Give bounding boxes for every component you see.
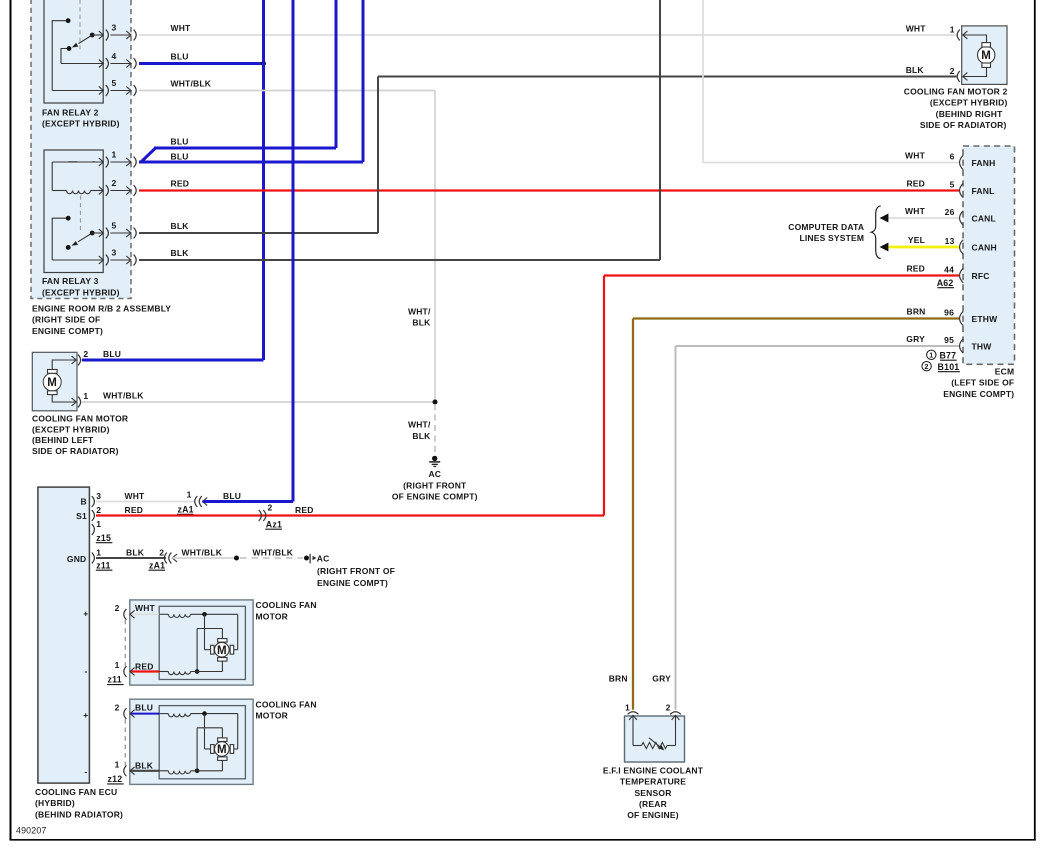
svg-text:(RIGHT FRONT OF: (RIGHT FRONT OF	[317, 566, 395, 576]
svg-text:WHT/: WHT/	[408, 420, 431, 430]
svg-text:13: 13	[945, 236, 955, 246]
svg-text:BLK: BLK	[171, 248, 190, 258]
svg-text:(EXCEPT HYBRID): (EXCEPT HYBRID)	[42, 287, 120, 297]
svg-text:AC: AC	[317, 554, 330, 564]
svg-text:4: 4	[112, 51, 117, 61]
svg-text:(REAR: (REAR	[639, 799, 667, 809]
svg-text:2: 2	[115, 702, 120, 712]
svg-text:Az1: Az1	[266, 519, 282, 529]
svg-text:WHT: WHT	[905, 206, 926, 216]
svg-text:BLK: BLK	[412, 431, 431, 441]
svg-text:BLU: BLU	[171, 137, 189, 147]
svg-text:A62: A62	[937, 278, 954, 288]
svg-text:FANL: FANL	[972, 186, 995, 196]
svg-text:AC: AC	[428, 469, 441, 479]
svg-text:BLU: BLU	[171, 152, 189, 162]
svg-text:26: 26	[945, 207, 955, 217]
svg-text:FANH: FANH	[972, 158, 996, 168]
svg-text:GRY: GRY	[652, 673, 671, 683]
svg-text:(BEHIND RADIATOR): (BEHIND RADIATOR)	[35, 809, 123, 819]
svg-text:(EXCEPT HYBRID): (EXCEPT HYBRID)	[930, 98, 1008, 108]
svg-text:WHT: WHT	[171, 23, 192, 33]
svg-text:COMPUTER DATA: COMPUTER DATA	[788, 222, 864, 232]
svg-text:M: M	[981, 50, 991, 62]
svg-text:COOLING FAN MOTOR 2: COOLING FAN MOTOR 2	[904, 87, 1008, 97]
svg-text:96: 96	[944, 308, 954, 318]
svg-text:CANL: CANL	[972, 213, 996, 223]
svg-text:1: 1	[83, 391, 88, 401]
svg-text:ENGINE COMPT): ENGINE COMPT)	[32, 326, 103, 336]
svg-text:2: 2	[115, 603, 120, 613]
svg-text:2: 2	[96, 505, 101, 515]
svg-text:M: M	[47, 377, 57, 389]
svg-text:z12: z12	[108, 774, 123, 784]
svg-text:(EXCEPT HYBRID): (EXCEPT HYBRID)	[32, 424, 110, 434]
svg-text:2: 2	[925, 364, 929, 371]
svg-text:BLK: BLK	[171, 221, 190, 231]
svg-text:3: 3	[112, 23, 117, 33]
svg-text:MOTOR: MOTOR	[256, 711, 288, 721]
svg-text:ETHW: ETHW	[972, 314, 999, 324]
svg-text:WHT/BLK: WHT/BLK	[103, 390, 144, 400]
svg-text:5: 5	[112, 221, 117, 231]
svg-text:B101: B101	[938, 362, 960, 372]
svg-text:B: B	[81, 497, 87, 507]
svg-text:FAN RELAY 3: FAN RELAY 3	[42, 276, 99, 286]
svg-text:GND: GND	[67, 554, 87, 564]
svg-text:ECM: ECM	[995, 366, 1015, 376]
svg-text:zA1: zA1	[149, 560, 165, 570]
svg-text:YEL: YEL	[908, 235, 925, 245]
svg-text:(BEHIND LEFT: (BEHIND LEFT	[32, 435, 94, 445]
svg-text:BLK: BLK	[135, 761, 154, 771]
svg-text:TEMPERATURE: TEMPERATURE	[620, 777, 686, 787]
svg-text:1: 1	[96, 548, 101, 558]
svg-text:OF ENGINE COMPT): OF ENGINE COMPT)	[392, 492, 478, 502]
svg-text:BLU: BLU	[103, 349, 121, 359]
svg-text:+: +	[83, 609, 88, 619]
svg-text:1: 1	[929, 353, 933, 360]
svg-text:CANH: CANH	[972, 242, 997, 252]
svg-text:COOLING FAN ECU: COOLING FAN ECU	[35, 787, 117, 797]
svg-text:z11: z11	[108, 675, 122, 685]
svg-text:SIDE OF RADIATOR): SIDE OF RADIATOR)	[32, 446, 119, 456]
svg-text:ENGINE COMPT): ENGINE COMPT)	[943, 389, 1014, 399]
svg-text:M: M	[217, 645, 227, 657]
svg-text:WHT: WHT	[125, 491, 146, 501]
svg-text:2: 2	[950, 66, 955, 76]
svg-text:COOLING FAN: COOLING FAN	[256, 700, 317, 710]
svg-text:M: M	[217, 744, 227, 756]
svg-text:RED: RED	[295, 505, 314, 515]
svg-text:490207: 490207	[16, 826, 47, 836]
svg-text:BLK: BLK	[906, 65, 925, 75]
svg-text:RED: RED	[906, 178, 925, 188]
svg-text:2: 2	[83, 349, 88, 359]
svg-text:(EXCEPT HYBRID): (EXCEPT HYBRID)	[42, 119, 120, 129]
svg-text:RED: RED	[171, 178, 190, 188]
svg-text:1: 1	[187, 490, 192, 500]
svg-text:z11: z11	[96, 560, 110, 570]
svg-text:FAN RELAY 2: FAN RELAY 2	[42, 107, 99, 117]
svg-text:RED: RED	[135, 661, 154, 671]
svg-text:BLU: BLU	[171, 52, 189, 62]
svg-text:2: 2	[666, 703, 671, 713]
svg-text:3: 3	[96, 491, 101, 501]
svg-text:+: +	[83, 710, 88, 720]
svg-text:44: 44	[944, 265, 954, 275]
svg-text:1: 1	[115, 760, 120, 770]
svg-text:BLU: BLU	[223, 491, 241, 501]
svg-text:BRN: BRN	[906, 306, 925, 316]
svg-text:RFC: RFC	[972, 271, 990, 281]
svg-text:(LEFT SIDE OF: (LEFT SIDE OF	[951, 378, 1014, 388]
svg-text:95: 95	[944, 335, 954, 345]
svg-text:WHT/BLK: WHT/BLK	[253, 547, 294, 557]
svg-text:(BEHIND RIGHT: (BEHIND RIGHT	[936, 109, 1003, 119]
svg-text:COOLING FAN: COOLING FAN	[256, 600, 317, 610]
svg-text:COOLING FAN MOTOR: COOLING FAN MOTOR	[32, 414, 128, 424]
svg-text:GRY: GRY	[906, 334, 925, 344]
svg-text:RED: RED	[125, 505, 144, 515]
svg-text:THW: THW	[972, 341, 993, 351]
svg-text:-: -	[85, 666, 88, 676]
svg-text:5: 5	[112, 78, 117, 88]
svg-text:(RIGHT FRONT: (RIGHT FRONT	[403, 480, 467, 490]
svg-text:6: 6	[950, 152, 955, 162]
svg-text:BRN: BRN	[609, 673, 628, 683]
svg-text:-: -	[85, 767, 88, 777]
svg-text:zA1: zA1	[178, 504, 194, 514]
svg-text:2: 2	[159, 547, 164, 557]
svg-text:BLK: BLK	[412, 318, 431, 328]
svg-text:WHT: WHT	[905, 151, 926, 161]
svg-text:WHT/BLK: WHT/BLK	[171, 79, 212, 89]
svg-text:1: 1	[950, 24, 955, 34]
svg-text:(HYBRID): (HYBRID)	[35, 798, 75, 808]
svg-text:BLK: BLK	[126, 547, 145, 557]
svg-text:5: 5	[950, 180, 955, 190]
svg-text:BLU: BLU	[135, 702, 153, 712]
svg-text:S1: S1	[76, 511, 87, 521]
svg-text:WHT/BLK: WHT/BLK	[182, 547, 223, 557]
svg-text:1: 1	[625, 703, 630, 713]
svg-text:RED: RED	[906, 263, 925, 273]
svg-text:WHT/: WHT/	[408, 306, 431, 316]
svg-text:B77: B77	[939, 350, 956, 360]
svg-text:(RIGHT SIDE OF: (RIGHT SIDE OF	[32, 315, 100, 325]
svg-text:2: 2	[112, 178, 117, 188]
svg-text:z15: z15	[96, 533, 111, 543]
svg-text:ENGINE COMPT): ENGINE COMPT)	[317, 578, 388, 588]
svg-text:SENSOR: SENSOR	[634, 788, 671, 798]
svg-text:1: 1	[96, 519, 101, 529]
svg-text:MOTOR: MOTOR	[256, 611, 288, 621]
svg-text:WHT: WHT	[135, 603, 156, 613]
svg-text:1: 1	[112, 150, 117, 160]
svg-text:LINES SYSTEM: LINES SYSTEM	[799, 233, 864, 243]
svg-text:WHT: WHT	[906, 24, 927, 34]
svg-text:SIDE OF RADIATOR): SIDE OF RADIATOR)	[920, 120, 1007, 130]
svg-text:2: 2	[268, 503, 273, 513]
svg-text:1: 1	[115, 660, 120, 670]
svg-text:E.F.I ENGINE COOLANT: E.F.I ENGINE COOLANT	[603, 766, 704, 776]
svg-text:3: 3	[112, 248, 117, 258]
svg-text:OF ENGINE): OF ENGINE)	[627, 810, 679, 820]
svg-text:ENGINE ROOM R/B 2 ASSEMBLY: ENGINE ROOM R/B 2 ASSEMBLY	[32, 304, 171, 314]
